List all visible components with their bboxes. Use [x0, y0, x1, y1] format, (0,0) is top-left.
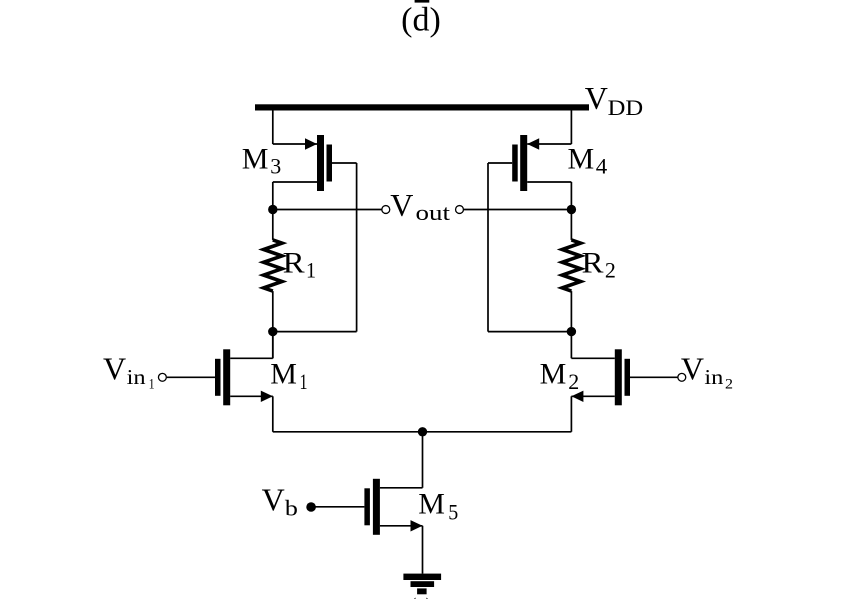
label R2: [582, 247, 616, 283]
wire node B1 horizontal: [273, 331, 357, 333]
terminal Vout right: [456, 206, 464, 214]
svg-text:b: b: [285, 496, 298, 521]
svg-text:V: V: [585, 80, 608, 116]
svg-text:V: V: [681, 350, 704, 386]
svg-text:5: 5: [448, 500, 458, 525]
svg-text:in: in: [704, 365, 724, 389]
svg-text:1: 1: [149, 376, 155, 392]
wire Vout terminal right to output node: [464, 209, 572, 211]
svg-text:2: 2: [605, 258, 616, 283]
svg-text:3: 3: [270, 153, 281, 178]
svg-text:DD: DD: [608, 95, 644, 120]
svg-text:M: M: [242, 142, 269, 175]
svg-text:2: 2: [568, 369, 579, 394]
label Vin1: [103, 350, 155, 392]
wire M1 source down to tail: [272, 396, 274, 432]
terminal Vout left: [382, 206, 390, 214]
label M4: [568, 142, 608, 178]
node B1 junction: [268, 327, 277, 336]
wire M2 source down to tail: [570, 396, 572, 432]
transistor M2: [571, 349, 678, 405]
label Vin2: [681, 350, 733, 392]
VDD bus: [255, 104, 589, 110]
transistor M1: [167, 349, 273, 405]
svg-text:R: R: [283, 247, 305, 280]
wire node B1 to M1 drain: [272, 332, 274, 359]
label M3: [242, 142, 281, 178]
wire M4 gate down to node B2: [487, 163, 489, 332]
transistor M5: [311, 479, 422, 535]
wire M4 drain down to output node: [570, 182, 572, 210]
svg-text:M: M: [270, 358, 297, 391]
label M5: [418, 487, 458, 524]
wire output node to Vout terminal left: [273, 209, 382, 211]
transistor M3: [273, 135, 357, 191]
node tail junction: [418, 427, 427, 436]
label M2: [540, 358, 580, 395]
svg-text:1: 1: [306, 258, 316, 283]
svg-text:M: M: [568, 142, 595, 175]
cut-off fragment of figure above: [415, 0, 430, 3]
svg-text:(e): (e): [409, 592, 433, 599]
label M1: [270, 358, 307, 395]
node B2 junction: [567, 327, 576, 336]
transistor M4: [488, 135, 571, 191]
label Vb: [262, 482, 298, 521]
wire M3 gate down to node B1: [356, 163, 358, 332]
wire node B2 to M2 drain: [570, 332, 572, 359]
wire M1 drain up (node B1 to drain lead): [272, 332, 274, 359]
svg-text:4: 4: [596, 153, 608, 178]
wire tail down to M5 drain: [422, 432, 424, 488]
svg-text:out: out: [416, 200, 451, 225]
wire M3 drain down to output node: [272, 182, 274, 210]
node Vb terminal dot: [306, 502, 316, 512]
svg-text:2: 2: [725, 376, 733, 392]
svg-text:M: M: [418, 487, 445, 520]
svg-text:V: V: [103, 350, 126, 386]
node left output junction: [268, 205, 277, 214]
label VDD: [585, 80, 643, 120]
wire VDD to M4 source: [570, 111, 572, 145]
svg-text:(d): (d): [401, 2, 441, 39]
wire tail horizontal: [273, 431, 572, 433]
ground: [403, 574, 441, 595]
svg-text:V: V: [390, 187, 413, 223]
resistor R2: [562, 210, 580, 332]
svg-text:M: M: [540, 358, 567, 391]
node right output junction: [567, 205, 576, 214]
terminal Vin1: [158, 373, 166, 381]
wire M5 source down to ground: [422, 526, 424, 574]
label R1: [283, 247, 316, 283]
wire VDD to M3 source: [272, 111, 274, 145]
svg-text:in: in: [127, 365, 147, 389]
wire node B2 horizontal: [488, 331, 571, 333]
label Vout: [390, 187, 450, 225]
svg-text:1: 1: [300, 369, 308, 394]
terminal Vin2: [678, 373, 686, 381]
resistor R1: [264, 210, 282, 332]
svg-text:V: V: [262, 482, 285, 518]
svg-text:R: R: [582, 247, 604, 280]
